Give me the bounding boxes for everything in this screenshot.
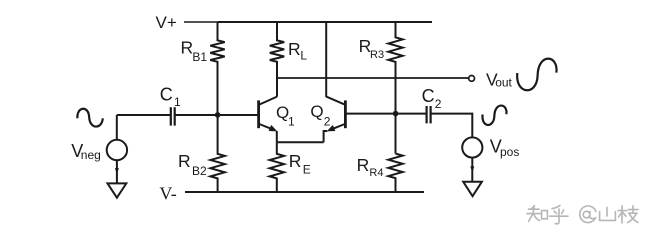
svg-text:neg: neg	[81, 148, 101, 162]
wire Vout line	[277, 77, 469, 79]
svg-text:B2: B2	[192, 164, 207, 178]
junction dot left	[215, 112, 221, 118]
svg-text:1: 1	[174, 95, 181, 109]
source Vpos	[462, 137, 482, 157]
resistor RB1	[210, 22, 224, 115]
svg-text:R: R	[288, 39, 301, 59]
svg-text:2: 2	[435, 97, 442, 111]
svg-text:C: C	[160, 85, 173, 105]
ground at Vpos	[463, 182, 482, 197]
resistor RR3	[388, 22, 402, 154]
glyph 乎	[550, 205, 568, 223]
glyph 山	[600, 207, 616, 220]
sine symbol at Vneg	[77, 109, 102, 127]
svg-text:R: R	[181, 37, 194, 57]
svg-text:V+: V+	[156, 13, 177, 32]
svg-text:R4: R4	[369, 167, 383, 179]
resistor RR4	[388, 154, 402, 192]
svg-text:1: 1	[288, 115, 295, 129]
wire emitter rail	[277, 141, 324, 143]
svg-text:V-: V-	[159, 184, 176, 204]
svg-text:B1: B1	[192, 50, 207, 64]
watermark 知乎 @山枝	[527, 205, 639, 224]
capacitor C2	[427, 106, 431, 123]
svg-text:R: R	[357, 155, 370, 175]
svg-text:R3: R3	[370, 49, 384, 61]
wire input corner to Vneg	[116, 115, 118, 140]
junction dot right	[393, 111, 399, 117]
svg-text:Q: Q	[310, 102, 323, 121]
transistor Q2	[344, 100, 347, 128]
sine symbol at Vpos	[482, 106, 506, 125]
svg-text:2: 2	[324, 115, 331, 129]
glyph 枝 right	[628, 206, 638, 223]
terminal Vout open circle	[469, 76, 475, 82]
capacitor C1	[171, 107, 175, 125]
glyph 知	[527, 206, 540, 222]
glyph @	[580, 206, 596, 223]
resistor RB2	[210, 115, 224, 192]
svg-text:E: E	[303, 162, 311, 176]
wire input left	[117, 114, 170, 116]
svg-text:pos: pos	[500, 145, 519, 159]
glyph 枝 left	[618, 206, 627, 223]
wire V- rail	[185, 191, 424, 193]
svg-text:out: out	[495, 76, 512, 90]
wire Q2 base	[345, 113, 426, 115]
svg-text:C: C	[422, 86, 435, 106]
wire C1 to Q1 base	[176, 114, 259, 116]
wire V+ rail	[184, 21, 218, 23]
resistor RE	[270, 142, 284, 192]
ground at Vneg	[108, 183, 127, 197]
resistor RL	[270, 22, 284, 97]
transistor Q1	[257, 100, 260, 128]
svg-text:R: R	[289, 151, 302, 171]
source Vneg	[107, 140, 127, 160]
wire V+ to Q2 collector	[325, 22, 327, 97]
wire C2 to Vpos	[431, 114, 472, 138]
sine symbol at Vout	[517, 59, 556, 91]
svg-text:L: L	[300, 48, 307, 62]
svg-text:R: R	[178, 151, 191, 171]
